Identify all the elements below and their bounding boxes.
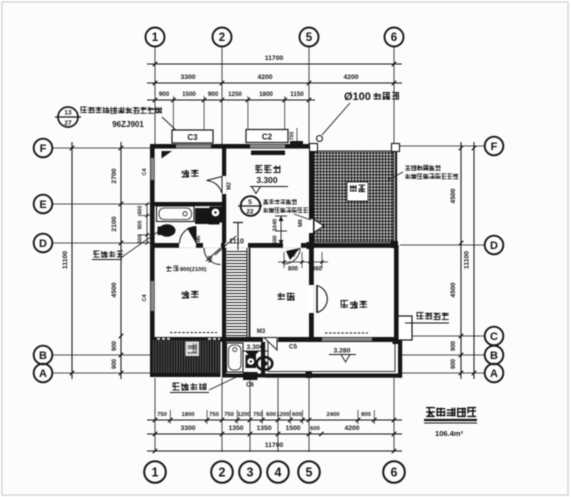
svg-text:600: 600	[266, 412, 277, 418]
svg-text:750: 750	[157, 412, 168, 418]
svg-text:E: E	[39, 199, 46, 211]
svg-text:4200: 4200	[343, 74, 358, 81]
svg-text:2: 2	[219, 466, 226, 480]
svg-text:1200: 1200	[237, 412, 251, 418]
svg-text:M6: M6	[298, 219, 304, 227]
svg-text:750: 750	[224, 412, 235, 418]
left axis circles F E D B A	[34, 139, 53, 383]
door M6 to roof terrace	[298, 219, 324, 232]
svg-text:3300: 3300	[180, 425, 195, 432]
svg-text:3.300: 3.300	[256, 175, 278, 185]
svg-text:900: 900	[159, 91, 170, 98]
right dim chain 4500 4500 900 900	[450, 142, 463, 379]
left exterior wall	[150, 144, 155, 342]
svg-text:750: 750	[209, 412, 220, 418]
svg-text:800: 800	[288, 267, 299, 273]
svg-text:4500: 4500	[450, 188, 457, 203]
top axis extension lines	[155, 46, 394, 144]
svg-text:3.300: 3.300	[246, 344, 263, 351]
window label C6 and lower blob	[243, 372, 258, 389]
terrace bottom right outline	[265, 337, 402, 378]
right overall dim 11100	[464, 142, 477, 379]
top dim row 900 1500 900 1250 1800 1150	[147, 91, 315, 102]
svg-text:4200: 4200	[257, 74, 272, 81]
central vertical wall column5	[309, 144, 314, 342]
svg-text:13: 13	[64, 110, 72, 117]
duct box right of C2	[290, 141, 303, 149]
terrace level 3.280	[329, 348, 356, 363]
svg-text:3: 3	[247, 466, 254, 480]
bottom axis extension lines	[155, 378, 394, 452]
leisure hall level 3.300	[250, 175, 288, 194]
left sub dim 600 900 600	[138, 202, 153, 244]
small bathroom walls	[222, 342, 265, 378]
svg-text:C4: C4	[142, 294, 148, 302]
svg-text:600: 600	[310, 426, 320, 432]
roof corner column marks	[307, 144, 400, 250]
svg-text:1500: 1500	[285, 425, 300, 432]
door opening note 800x2100	[166, 266, 206, 273]
svg-text:1800: 1800	[181, 412, 195, 418]
bathtub upper bathroom	[157, 206, 195, 222]
corridor vertical dim 1040 600	[273, 216, 288, 245]
bathroom2 label with leader	[92, 229, 162, 260]
corner flue mark top-left bedroom	[162, 151, 173, 159]
svg-text:360: 360	[312, 267, 323, 273]
bottom dim row 3300 1350 1350 1500 4200	[147, 425, 402, 436]
svg-text:11700: 11700	[265, 55, 284, 62]
interior wall bath-bed divider row E	[150, 202, 226, 206]
roof terrace right parapet	[395, 145, 397, 245]
master bedroom label	[341, 300, 349, 302]
stair shaft left wall	[222, 248, 226, 342]
small bathroom toilet	[257, 357, 273, 370]
interior wall column2 vertical	[222, 144, 226, 249]
svg-text:M3: M3	[257, 329, 266, 335]
staircase treads	[227, 252, 247, 336]
right axis lines	[400, 146, 485, 373]
svg-text:4200: 4200	[344, 425, 359, 432]
roof terrace hatched area	[314, 151, 394, 242]
rain pipe circle at roof corner	[317, 136, 323, 142]
svg-text:C5: C5	[289, 344, 298, 351]
svg-text:5: 5	[306, 466, 313, 480]
roof terrace label box	[347, 182, 368, 201]
leisure hall label	[256, 165, 263, 167]
svg-text:M5: M5	[196, 235, 202, 242]
svg-text:C3: C3	[187, 133, 198, 142]
svg-text:2700: 2700	[111, 168, 118, 183]
terrace corner squares	[306, 338, 400, 379]
bathroom door M5 arc	[180, 227, 203, 244]
svg-text:800: 800	[361, 412, 372, 418]
svg-text:27: 27	[64, 120, 72, 127]
drawing title second floor plan	[424, 408, 477, 438]
roof terrace bottom wall	[309, 243, 398, 248]
svg-text:11100: 11100	[464, 251, 471, 269]
door master bedroom lens	[317, 286, 327, 313]
svg-text:600: 600	[273, 235, 279, 244]
svg-text:4500: 4500	[450, 282, 457, 297]
small bathroom basin	[246, 355, 257, 368]
svg-text:C6: C6	[246, 383, 254, 389]
door M3 leaf	[264, 338, 277, 351]
top exterior wall	[150, 144, 312, 149]
svg-text:A: A	[490, 368, 498, 380]
svg-text:11700: 11700	[265, 442, 284, 449]
svg-text:800(2100): 800(2100)	[180, 267, 206, 273]
svg-text:900: 900	[451, 340, 457, 351]
top dim row 3300 4200 4200	[147, 74, 402, 85]
svg-text:2: 2	[219, 32, 225, 44]
svg-text:3.280: 3.280	[333, 348, 350, 355]
svg-text:96ZJ901: 96ZJ901	[112, 120, 144, 129]
top axis circles 1 2 5 6	[146, 28, 404, 47]
AC outdoor unit note detail circle	[55, 107, 81, 127]
toilet upper bathroom	[158, 224, 176, 236]
svg-text:D: D	[39, 238, 47, 250]
door M2 upper bedroom	[207, 177, 233, 194]
svg-text:600: 600	[138, 235, 144, 244]
stair break line	[215, 236, 236, 255]
balcony railing dark block with stripes	[150, 337, 221, 377]
left overall dim 11100	[62, 142, 74, 379]
svg-text:2400: 2400	[326, 412, 340, 418]
bottom axis circles 1 2 3 4 5 6	[144, 461, 405, 483]
svg-text:5: 5	[248, 199, 252, 206]
svg-text:6: 6	[391, 32, 397, 44]
AC shelf right with label	[398, 313, 449, 341]
small bathroom level 3.300	[243, 344, 268, 359]
svg-text:1350: 1350	[256, 425, 271, 432]
svg-text:11100: 11100	[62, 251, 69, 269]
svg-text:B: B	[490, 350, 498, 362]
svg-text:900: 900	[451, 358, 457, 369]
svg-text:1110: 1110	[229, 239, 244, 246]
svg-text:A: A	[39, 368, 47, 380]
svg-text:1250: 1250	[228, 91, 242, 98]
svg-text:1: 1	[152, 32, 159, 44]
svg-text:1350: 1350	[228, 425, 243, 432]
stair right rail wall	[247, 248, 250, 338]
bedroom top-left label	[182, 171, 190, 173]
bottom dim total 11700	[147, 442, 402, 453]
interior wall row D horizontal	[150, 243, 312, 248]
svg-text:D: D	[490, 240, 498, 252]
svg-text:M2: M2	[208, 255, 214, 262]
sill strip under C2 window	[251, 151, 285, 156]
svg-text:C2: C2	[262, 133, 273, 142]
svg-text:2100: 2100	[111, 216, 118, 231]
bottom dim row fine 750 1800 750 750 1200 ...	[147, 410, 402, 424]
svg-text:5: 5	[306, 32, 313, 44]
door M7 corridor	[284, 248, 300, 264]
svg-text:106.4m²: 106.4m²	[435, 429, 463, 438]
svg-text:900: 900	[112, 358, 118, 369]
svg-text:1800: 1800	[259, 91, 273, 98]
svg-text:B: B	[39, 350, 47, 362]
small bathroom bathtub	[227, 343, 244, 372]
AC note leader line	[162, 117, 180, 134]
svg-text:3300: 3300	[180, 74, 195, 81]
rain pipe label leader	[322, 103, 350, 135]
svg-text:4: 4	[275, 466, 282, 480]
svg-text:700: 700	[290, 132, 296, 141]
svg-text:900: 900	[208, 91, 219, 98]
svg-text:1500: 1500	[182, 91, 196, 98]
svg-text:900: 900	[138, 221, 144, 230]
svg-text:F: F	[491, 141, 498, 153]
small dim 700 near C2	[290, 128, 298, 144]
dim 800 360 below M7	[278, 252, 328, 273]
rain pipe label text	[344, 91, 399, 103]
svg-text:600: 600	[292, 412, 303, 418]
window label box C3	[172, 130, 213, 143]
svg-text:6: 6	[391, 466, 398, 480]
svg-text:M7: M7	[288, 253, 296, 259]
svg-text:22: 22	[246, 209, 254, 216]
right axis circles F D C B A	[485, 137, 504, 383]
svg-text:1150: 1150	[290, 91, 304, 98]
svg-text:600: 600	[138, 206, 144, 215]
svg-text:C: C	[490, 331, 498, 343]
svg-text:4500: 4500	[111, 282, 118, 297]
balcony sill dashes	[170, 332, 217, 334]
bottom exterior wall row C	[150, 337, 399, 342]
study room label	[278, 294, 286, 296]
bathroom3 label with leader	[170, 372, 247, 393]
svg-text:Ø100: Ø100	[344, 91, 371, 103]
left axis lines	[52, 148, 150, 373]
railing detail note text	[263, 199, 313, 220]
railing detail circle reference	[238, 196, 262, 216]
AC outdoor unit note text	[80, 107, 161, 129]
svg-text:C4: C4	[142, 168, 148, 176]
svg-text:750: 750	[253, 412, 264, 418]
top dim row total 11700	[147, 55, 402, 66]
svg-text:M2: M2	[227, 182, 233, 190]
right exterior wall of master bedroom	[394, 245, 399, 342]
left dim chain 2700 2100 4500 900 900	[111, 142, 123, 379]
terrace top dashes	[325, 332, 368, 334]
svg-text:900: 900	[112, 340, 118, 351]
svg-text:F: F	[40, 143, 47, 155]
svg-text:1200: 1200	[276, 412, 290, 418]
door lower bedroom arc	[204, 248, 221, 265]
svg-text:1040: 1040	[273, 219, 279, 231]
bedroom bottom-left label	[182, 292, 190, 294]
stair direction line with T bar	[233, 223, 243, 251]
roof waterproofing note	[388, 165, 458, 180]
svg-text:1: 1	[152, 466, 159, 480]
window label box C2	[246, 130, 288, 143]
vanity counter black	[195, 207, 222, 225]
